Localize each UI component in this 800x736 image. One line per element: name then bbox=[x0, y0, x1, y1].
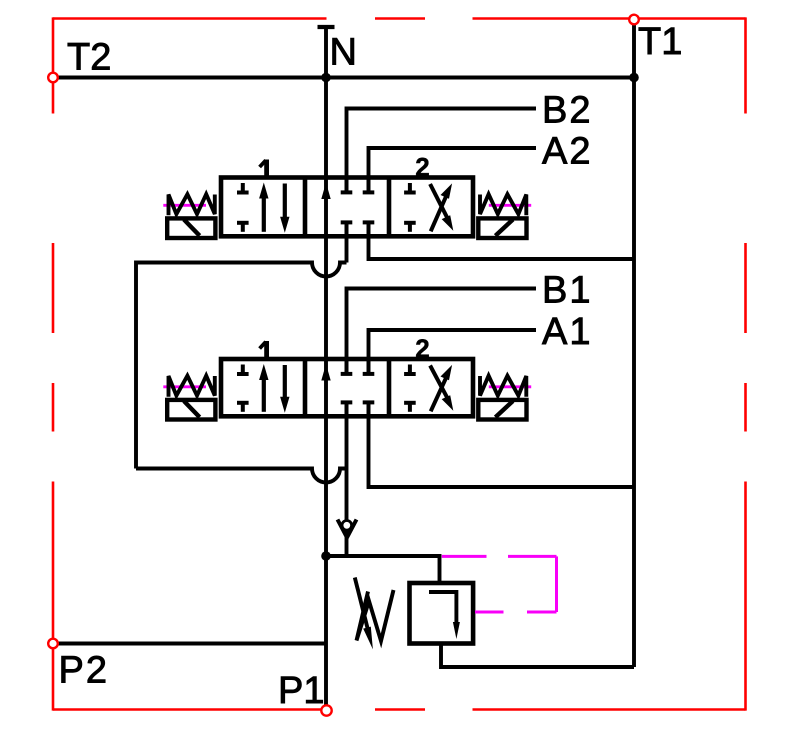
svg-text:B2: B2 bbox=[542, 90, 592, 132]
port T2 (red circle) bbox=[48, 73, 58, 83]
svg-text:A1: A1 bbox=[542, 311, 592, 353]
enclosure border top (red dashed) bbox=[53, 17, 746, 20]
wire work port B1 bbox=[347, 289, 537, 361]
valve V2 (upper, spool 2) position-2 blocked port bottom bbox=[404, 223, 416, 232]
port T1 (red circle) bbox=[629, 15, 639, 25]
enclosure border left (red dashed) bbox=[52, 17, 55, 710]
relief valve RV1 internal flow path arrow bbox=[429, 592, 460, 639]
valve V2 (upper, spool 2) right lever actuator bbox=[478, 218, 526, 238]
wire valve V2 bottom B stub bbox=[345, 235, 349, 263]
enclosure border right (red dashed) bbox=[744, 17, 747, 710]
valve V1 (lower, spool 1) position label 1 bbox=[260, 341, 267, 358]
valve V2 (upper, spool 2) position-1 up-flow arrow bbox=[259, 183, 268, 232]
valve V1 (lower, spool 1) position-2 blocked port bottom bbox=[404, 403, 416, 412]
valve V1 (lower, spool 1) position-1 blocked port top bbox=[237, 365, 249, 375]
wire tank line T2 bbox=[56, 76, 634, 80]
valve V1 (lower, spool 1) position-2 blocked port top bbox=[404, 365, 416, 375]
valve V1 (lower, spool 1) right lever actuator bbox=[478, 400, 526, 420]
valve V1 (lower, spool 1) right return spring bbox=[480, 376, 526, 397]
node N plugged top bar bbox=[318, 25, 335, 29]
svg-text:P1: P1 bbox=[278, 670, 324, 712]
valve V2 (upper, spool 2) right return spring bbox=[480, 194, 526, 215]
valve V2 (upper, spool 2) position-2 blocked port top bbox=[404, 183, 416, 193]
wire valve V1 B stub down to check valve and P gallery bbox=[345, 416, 349, 556]
svg-text:B1: B1 bbox=[542, 270, 592, 312]
valve V1 (lower, spool 1) neutral blocked port B (bottom stub with bar) bbox=[341, 402, 353, 416]
valve V1 (lower, spool 1) position-2 cross-flow arrow falling bbox=[430, 366, 453, 411]
svg-text:P2: P2 bbox=[59, 650, 109, 692]
junction N x T2 bbox=[321, 73, 331, 83]
valve V1 (lower, spool 1) position-1 down-flow arrow bbox=[280, 365, 289, 413]
wire relief valve outlet to tank riser bbox=[441, 644, 634, 668]
valve V2 (upper, spool 2) neutral blocked port A (bottom stub with bar) bbox=[363, 222, 375, 236]
junction T1 x T2 bbox=[629, 73, 639, 83]
valve V2 (upper, spool 2) position-1 blocked port bottom bbox=[237, 223, 249, 232]
wire carryover channel from valve V2 B-port with jump over N bbox=[136, 263, 347, 469]
wire valve V1 A-exit to tank riser bbox=[369, 416, 635, 487]
wire tank riser T1 bbox=[632, 25, 636, 668]
valve V1 (lower, spool 1) neutral blocked port A (top stub with bar) bbox=[363, 359, 375, 374]
valve V2 (upper, spool 2) position-1 down-flow arrow bbox=[280, 184, 289, 233]
port P1 (red circle) bbox=[321, 705, 331, 715]
valve V2 (upper, spool 2) neutral blocked port B (top stub with bar) bbox=[341, 178, 353, 193]
valve V1 (lower, spool 1) neutral blocked port A (bottom stub with bar) bbox=[363, 402, 375, 416]
wire work port B2 bbox=[347, 109, 537, 180]
valve V2 (upper, spool 2) right spring detent line (magenta) bbox=[489, 204, 531, 207]
valve V2 (upper, spool 2) neutral blocked port A (top stub with bar) bbox=[363, 178, 375, 193]
valve V2 (upper, spool 2) neutral blocked port B (bottom stub with bar) bbox=[341, 222, 353, 236]
valve V2 (upper, spool 2) left lever actuator bbox=[167, 218, 215, 238]
valve V2 (upper, spool 2) position label 1 bbox=[260, 160, 267, 177]
valve V2 (upper, spool 2) position-1 blocked port top bbox=[237, 183, 249, 193]
relief valve RV1 pilot line (magenta dashed) bbox=[442, 556, 557, 612]
svg-text:T2: T2 bbox=[67, 37, 111, 79]
wire pump line P2 bbox=[56, 642, 326, 646]
valve V1 (lower, spool 1) left spring detent line (magenta) bbox=[163, 385, 206, 388]
valve V2 (upper, spool 2) neutral passage up-arrowhead on N line bbox=[321, 183, 330, 200]
valve V1 (lower, spool 1) position-1 blocked port bottom bbox=[237, 403, 249, 412]
valve V1 (lower, spool 1) body (3-position envelope) bbox=[221, 359, 473, 416]
valve V1 (lower, spool 1) position-1 up-flow arrow bbox=[259, 364, 268, 412]
wire valve V2 A-exit to tank riser bbox=[369, 235, 635, 259]
valve V2 (upper, spool 2) body (3-position envelope) bbox=[221, 178, 473, 237]
check valve CV1 (ball in seat) bbox=[338, 520, 357, 538]
valve V2 (upper, spool 2) position-2 cross-flow arrow rising bbox=[431, 183, 452, 231]
relief valve RV1 body bbox=[410, 583, 474, 644]
svg-text:2: 2 bbox=[415, 334, 429, 364]
valve V1 (lower, spool 1) left lever actuator bbox=[167, 400, 215, 420]
svg-text:T1: T1 bbox=[638, 21, 682, 63]
svg-text:2: 2 bbox=[415, 152, 429, 182]
valve V2 (upper, spool 2) position-2 cross-flow arrow falling bbox=[430, 184, 453, 231]
port P2 (red circle) bbox=[48, 639, 58, 649]
wire work port A2 bbox=[369, 148, 537, 179]
wire carryover channel into valve V1 B-port with jump over N bbox=[136, 469, 347, 483]
relief valve RV1 adjustment arrow bbox=[355, 578, 373, 650]
wire neutral gallery N vertical bbox=[324, 27, 328, 706]
svg-text:N: N bbox=[330, 32, 357, 74]
valve V2 (upper, spool 2) left spring detent line (magenta) bbox=[163, 204, 206, 207]
svg-text:A2: A2 bbox=[542, 131, 592, 173]
valve V1 (lower, spool 1) left return spring bbox=[169, 376, 215, 397]
relief valve RV1 adjustable spring bbox=[357, 590, 394, 641]
enclosure border bottom (red dashed) bbox=[53, 708, 746, 711]
valve V2 (upper, spool 2) left return spring bbox=[169, 194, 215, 215]
junction P gallery x relief feed bbox=[321, 551, 331, 561]
valve V1 (lower, spool 1) neutral passage up-arrowhead on N line bbox=[321, 364, 330, 381]
valve V1 (lower, spool 1) neutral blocked port B (top stub with bar) bbox=[341, 359, 353, 374]
wire relief feed from P gallery bbox=[326, 556, 440, 583]
valve V1 (lower, spool 1) position-2 cross-flow arrow rising bbox=[431, 365, 452, 411]
valve V1 (lower, spool 1) right spring detent line (magenta) bbox=[489, 385, 531, 388]
wire work port A1 bbox=[369, 330, 537, 360]
